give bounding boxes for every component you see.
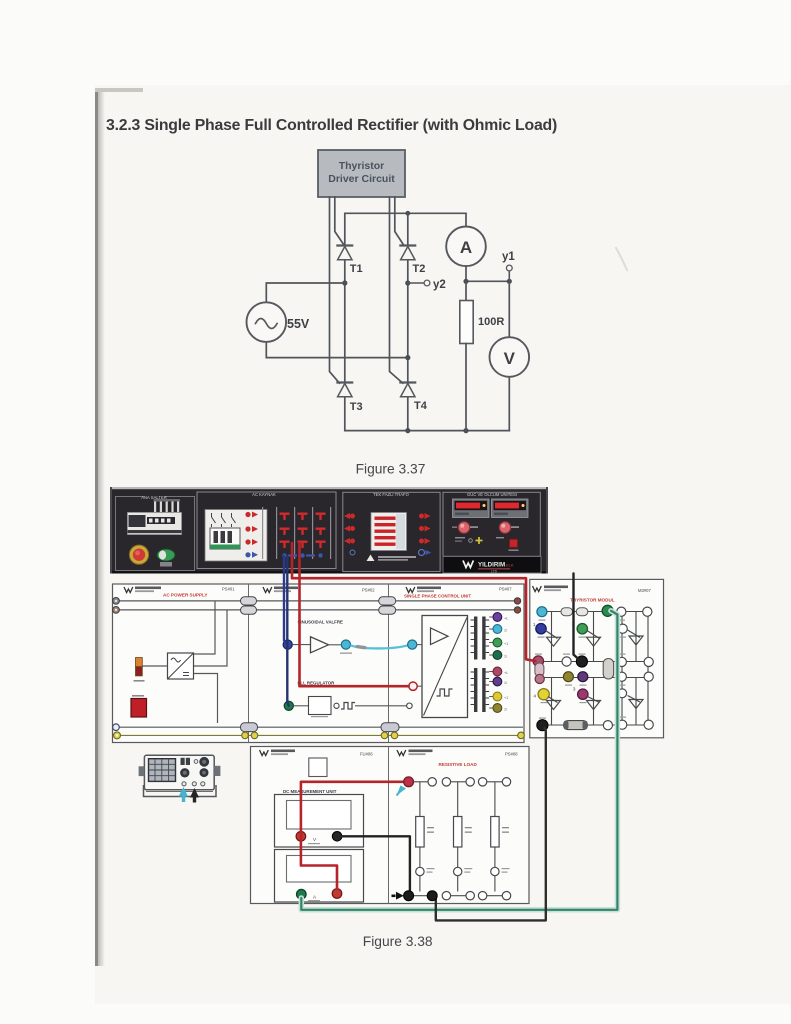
- wire pulse to control unit: [355, 705, 407, 707]
- terminal sine output cyan: [340, 640, 352, 654]
- wire rload top link 3: [487, 781, 503, 783]
- terminal control PLL input ring: [409, 682, 417, 690]
- heading text: [106, 117, 557, 134]
- wire red pll phase lead: [300, 543, 409, 686]
- wire module mid rail: [621, 612, 623, 725]
- terminal y1: [502, 251, 515, 271]
- wire row F bus: [542, 724, 648, 726]
- phase terminal grid: [262, 507, 331, 559]
- svg-text:A: A: [460, 238, 472, 257]
- node junction T2 top rail: [405, 211, 410, 216]
- control unit main block: [422, 616, 468, 718]
- wire rail L1 module3: [396, 600, 515, 602]
- wire column3 rail lower: [635, 678, 637, 726]
- variac knob 1: [452, 522, 478, 534]
- wire T4 lower rail: [407, 398, 409, 431]
- wire column1 rail lower: [551, 678, 553, 726]
- terminal D2 purple plugged: [578, 672, 588, 686]
- svg-text:T1: T1: [350, 263, 363, 275]
- terminal ammeter plus green: [297, 889, 307, 899]
- terminal rail N right: [514, 607, 520, 613]
- svg-text:y1: y1: [502, 251, 515, 263]
- resistor R2: [454, 782, 473, 892]
- wire column3 rail upper: [635, 612, 637, 662]
- power panel chassis: [110, 487, 548, 574]
- svg-text:M3#07: M3#07: [638, 588, 651, 593]
- module logo measurement unit: [260, 750, 374, 757]
- terminal rload B1: [442, 778, 450, 786]
- wire AC source top to left midpoint: [266, 283, 345, 303]
- contactor output terminals: [245, 512, 258, 558]
- terminal K1b pink: [535, 674, 544, 683]
- wire red main phase lead: [292, 543, 536, 661]
- terminal F1 black plugged: [537, 718, 548, 731]
- terminal rload bottom C1: [478, 892, 486, 900]
- terminal rload C2: [502, 778, 510, 786]
- terminal y2: [424, 279, 446, 291]
- wire T1-T3 left rail: [344, 260, 346, 382]
- wire rail N module3: [396, 609, 515, 611]
- module logo function generator: [263, 587, 375, 593]
- resistor R1: [416, 782, 435, 892]
- svg-text:+L: +L: [504, 671, 508, 675]
- terminal rload A1 red plugged: [404, 777, 414, 787]
- fuse pill A2: [576, 608, 588, 616]
- op-amp buffer: [311, 637, 329, 653]
- svg-text:T3: T3: [350, 401, 363, 413]
- thyristor S1: [546, 631, 561, 647]
- wire red measure chain: [301, 782, 405, 889]
- svg-text:DC MEASUREMENT UNIT: DC MEASUREMENT UNIT: [283, 789, 337, 794]
- connector pill bottom rail A mid2: [381, 723, 399, 732]
- svg-text:PS#07: PS#07: [499, 587, 512, 592]
- terminal yellow pair mid1: [242, 732, 258, 739]
- terminal sine input blue: [283, 640, 292, 649]
- wire column2 rail lower: [593, 678, 595, 726]
- wire blue terminal to buffer: [292, 644, 310, 646]
- svg-text:+1: +1: [504, 696, 508, 700]
- wire rload bottom link 1: [413, 895, 428, 897]
- svg-text:TEK FAZLI TRAFO: TEK FAZLI TRAFO: [373, 492, 409, 497]
- terminal bottom rail A left: [113, 724, 120, 731]
- square wave symbol: [341, 703, 355, 710]
- terminal rail L1 left: [113, 598, 120, 605]
- wire rload bottom link 3: [487, 895, 503, 897]
- pulse transformer group 1: [471, 617, 490, 660]
- wire gate drive to T2: [395, 197, 404, 245]
- wire module row A bus: [546, 611, 648, 613]
- transformer output terminals: [419, 513, 432, 556]
- voltmeter V: [490, 337, 530, 377]
- wire rail N module2: [257, 609, 379, 611]
- terminal gate K2 teal: [489, 651, 507, 660]
- terminal rload B2: [466, 778, 474, 786]
- terminal A4 open: [643, 607, 652, 616]
- terminal D1 olive plugged: [563, 672, 573, 686]
- brand logo plate: [443, 557, 541, 574]
- terminal C4 open: [617, 654, 626, 667]
- rectifier converter box: [168, 653, 194, 679]
- wire resistor bottom: [465, 344, 467, 431]
- svg-text:T4: T4: [414, 400, 428, 412]
- thyristor S3: [628, 630, 644, 645]
- warning label strip: [367, 555, 417, 562]
- wire row C bus: [538, 661, 648, 663]
- wire y2 stub: [408, 282, 424, 284]
- wire black measure lead: [342, 836, 410, 891]
- wire rectifier out to bottom rail: [194, 674, 218, 724]
- left scan shadow band: [95, 88, 143, 966]
- terminal C5 open: [644, 657, 653, 666]
- ammeter A: [446, 227, 486, 267]
- wire cyan sine signal: [350, 645, 408, 650]
- terminal yellow right: [518, 732, 525, 739]
- svg-text:SINUSOIDAL VALFRE: SINUSOIDAL VALFRE: [298, 620, 344, 625]
- terminal gate5 magenta plugged: [573, 687, 588, 704]
- indicator red block: [131, 695, 147, 717]
- wire top node T1-T2 anodes to ammeter: [345, 213, 466, 245]
- terminal PLL output green: [284, 701, 293, 710]
- input arrow marker: [392, 892, 404, 900]
- terminal rload C1: [478, 778, 486, 786]
- terminal F4 open: [644, 720, 653, 729]
- wire rload top link 1: [413, 781, 428, 783]
- label measurement unit: [283, 789, 337, 794]
- AC source 55V: [246, 302, 309, 342]
- wire bottom rail: [345, 430, 510, 432]
- emergency stop button: [129, 545, 148, 564]
- fuse pill row F: [564, 721, 588, 730]
- terminal gate3 open: [618, 624, 627, 638]
- terminal gate4 yellow plugged: [534, 689, 550, 704]
- terminal rload bottom C2: [502, 892, 510, 900]
- node junction ammeter bottom: [463, 279, 468, 284]
- svg-text:1/: 1/: [504, 708, 507, 712]
- section frame transformer: [343, 492, 440, 572]
- svg-text:+1: +1: [504, 642, 508, 646]
- node junction right bridge midpoint: [405, 280, 410, 285]
- label PLL section: [298, 681, 336, 686]
- section frame main switch: [116, 495, 195, 571]
- terminal D4 open: [644, 672, 653, 681]
- svg-text:Driver Circuit: Driver Circuit: [328, 173, 395, 185]
- wire rload top link 2: [451, 781, 466, 783]
- terminal rail N left: [113, 607, 120, 614]
- wire module right rail: [647, 612, 649, 725]
- wire green load return: [301, 611, 617, 910]
- svg-text:100R: 100R: [478, 316, 504, 328]
- module logo AC power supply: [124, 587, 235, 598]
- wire resistor branch top: [465, 281, 467, 300]
- terminal gate1 navy plugged: [533, 622, 546, 638]
- wire column1 rail upper: [551, 612, 553, 662]
- resistor 100R: [460, 301, 505, 344]
- terminal rload A2: [428, 778, 436, 786]
- svg-text:RESISTIVE LOAD: RESISTIVE LOAD: [439, 762, 478, 767]
- label sinusoidal section: [298, 620, 344, 625]
- wire green terminal to divider box: [293, 705, 308, 707]
- svg-text:ELK: ELK: [506, 563, 514, 568]
- connector pill rail L1: [241, 597, 257, 605]
- probe arrow cyan lower: [397, 786, 407, 796]
- wire rload bottom link 2: [451, 895, 466, 897]
- wire T2-T4 right rail: [407, 260, 409, 382]
- terminal K1 maroon plugged: [533, 654, 543, 667]
- caption Figure 3.38: [363, 934, 433, 949]
- svg-text:y2: y2: [433, 279, 446, 291]
- connector pill rail L1 mod2: [379, 597, 396, 605]
- wire gate drive to T1: [335, 197, 344, 245]
- terminal gate K4 olive: [489, 704, 507, 713]
- svg-text:AC POWER SUPPLY: AC POWER SUPPLY: [163, 593, 208, 598]
- terminal A3 open: [617, 607, 626, 621]
- resistor R3: [491, 782, 510, 892]
- terminal yellow left: [114, 732, 121, 739]
- terminal gate K3 purple: [489, 677, 507, 686]
- thyristor S6: [628, 696, 644, 709]
- fuse pill A1: [561, 608, 573, 616]
- svg-text:+L: +L: [504, 617, 508, 621]
- circuit breaker block: [128, 513, 182, 535]
- node junction resistor bottom: [463, 428, 468, 433]
- wire navy pll lead: [287, 556, 289, 706]
- terminal F3 open: [618, 717, 627, 730]
- variac knob 2: [499, 522, 519, 534]
- terminal C3 black plugged: [576, 654, 587, 668]
- svg-text:1/: 1/: [504, 655, 507, 659]
- pulse transformer group 2: [471, 668, 490, 712]
- terminal sync input: [407, 703, 413, 709]
- wire cyan terminal2 to block: [417, 644, 422, 646]
- connector pill center: [603, 659, 613, 680]
- wire voltmeter branch: [508, 281, 510, 430]
- wire black thyristor lead: [574, 574, 581, 661]
- terminal rload bottom B2: [466, 892, 474, 900]
- wire T2 anode rail: [407, 213, 409, 245]
- terminal rload bottom A2 black plugged: [427, 891, 437, 901]
- scan smudge near y1: [616, 248, 627, 270]
- terminal C2 open: [562, 654, 571, 667]
- connector pill rail N mod2: [379, 606, 396, 614]
- frequency divider box: [309, 697, 332, 718]
- terminal gate G3 pink: [489, 667, 508, 676]
- fuse holder box: [309, 758, 327, 777]
- upper training board: [113, 584, 525, 743]
- thyristor T3: [337, 383, 362, 414]
- fuse pill vertical K1: [535, 663, 544, 677]
- terminal gate G2 green: [489, 638, 508, 647]
- terminal rload bottom B1: [442, 892, 450, 900]
- wire navy sine lead: [284, 556, 288, 645]
- svg-text:1/: 1/: [504, 681, 507, 685]
- wire gate drive to T4: [390, 197, 403, 383]
- terminal yellow pair mid2: [381, 732, 398, 739]
- terminal ammeter minus red: [332, 889, 342, 899]
- breaker terminal pins: [154, 499, 181, 512]
- svg-text:Thyristor: Thyristor: [339, 160, 385, 172]
- panel small markings: [455, 537, 504, 544]
- svg-text:YILDIRIM: YILDIRIM: [478, 562, 505, 569]
- terminal pulse out: [334, 703, 339, 708]
- terminal D3 open: [617, 672, 626, 686]
- terminal A2 green plugged: [602, 605, 613, 616]
- terminal gate G1 purple: [489, 613, 508, 622]
- thyristor T2: [400, 246, 425, 276]
- svg-text:LTD: LTD: [491, 570, 498, 574]
- svg-text:THYRISTOR MODUL: THYRISTOR MODUL: [570, 598, 615, 603]
- svg-text:3.2.3 Single Phase Full Contro: 3.2.3 Single Phase Full Controlled Recti…: [106, 117, 557, 134]
- svg-text:V: V: [504, 349, 516, 368]
- svg-text:55V: 55V: [287, 317, 310, 331]
- module logo control unit: [404, 587, 512, 599]
- svg-text:FU#06: FU#06: [360, 752, 373, 757]
- svg-text:1/: 1/: [504, 629, 507, 633]
- oscilloscope: [139, 755, 221, 796]
- thyristor module board: [530, 579, 664, 737]
- wire rail N module1: [116, 609, 241, 611]
- scope probe cyan: [179, 787, 189, 802]
- start button green: [157, 549, 175, 567]
- section frame meters: [443, 492, 540, 556]
- terminal rail L1 right: [514, 598, 520, 604]
- digital voltmeter display: [453, 499, 490, 518]
- thyristor S5: [587, 697, 601, 710]
- wire gate drive to T3: [330, 197, 340, 383]
- wire dark common return: [436, 728, 546, 920]
- wire buffer to cyan terminal: [329, 644, 342, 646]
- isolation transformer block: [371, 513, 407, 551]
- terminal A1 cyan: [537, 607, 547, 621]
- node junction AC bottom to T2-T4 rail: [405, 355, 410, 360]
- connector pill rail N: [241, 606, 257, 614]
- thyristor S2: [587, 631, 601, 647]
- terminal gate6 open: [618, 689, 627, 698]
- transformer input terminals: [344, 513, 355, 555]
- terminal voltmeter plus red: [296, 832, 306, 842]
- wire rail drop to rectifier: [194, 601, 216, 654]
- terminal gate G4 yellow: [489, 692, 508, 701]
- svg-text:T2: T2: [413, 263, 426, 275]
- wire column2 rail upper: [593, 612, 595, 662]
- voltmeter block: [275, 795, 364, 848]
- thyristor T1: [337, 246, 362, 276]
- svg-text:GUC VE OLCUM UNITESI: GUC VE OLCUM UNITESI: [467, 492, 517, 497]
- svg-text:AC KAYNAK: AC KAYNAK: [252, 492, 276, 497]
- scope probe black: [190, 788, 199, 803]
- caption Figure 3.37: [356, 462, 426, 477]
- section frame AC source: [197, 492, 336, 569]
- wire y1 stub: [508, 271, 510, 281]
- connector pill bottom rail A mid1: [241, 723, 258, 732]
- wire ammeter to measure node: [466, 266, 509, 281]
- node junction left bridge midpoint: [342, 280, 347, 285]
- svg-text:PS#01: PS#01: [222, 587, 235, 592]
- terminal gate K1 cyan: [489, 625, 507, 634]
- node junction voltmeter top: [507, 279, 512, 284]
- wire board bottom rail A: [116, 726, 523, 728]
- wire T3 lower rail: [344, 398, 346, 431]
- module logo resistive load: [397, 750, 518, 768]
- wire row D bus: [540, 677, 648, 679]
- wire AC source bottom to right midpoint: [266, 342, 408, 358]
- terminal rload bottom A1 black plugged: [404, 891, 414, 901]
- fuse component orange: [134, 658, 168, 682]
- wire rail L1 module1: [116, 600, 241, 602]
- terminal gate2 green plugged: [572, 621, 588, 638]
- ammeter block: [275, 850, 364, 903]
- thyristor S4: [547, 697, 561, 710]
- wire rail L1 module2: [257, 600, 379, 602]
- thyristor T4: [400, 383, 427, 413]
- terminal F2 open: [603, 721, 612, 730]
- svg-text:Figure 3.37: Figure 3.37: [356, 462, 426, 477]
- svg-text:PS#08: PS#08: [505, 752, 518, 757]
- thyristor driver circuit box U1: [318, 150, 405, 197]
- node junction T4 bottom: [405, 428, 410, 433]
- contactor box: [205, 510, 267, 562]
- svg-text:PS#02: PS#02: [362, 588, 375, 593]
- wire board bottom rail B yellow: [117, 734, 523, 736]
- svg-text:PLL REGULATOR: PLL REGULATOR: [298, 681, 336, 686]
- terminal control sine input cyan: [408, 640, 417, 649]
- wire ring terminal to block: [417, 685, 422, 687]
- lower training board: [251, 747, 530, 904]
- terminal voltmeter minus black: [332, 832, 342, 842]
- digital ammeter display: [492, 499, 529, 518]
- wire rail N drop to rectifier: [194, 610, 228, 666]
- svg-text:Figure 3.38: Figure 3.38: [363, 934, 433, 949]
- red pushbutton: [509, 539, 519, 551]
- svg-text:SINGLE PHASE CONTROL UNIT: SINGLE PHASE CONTROL UNIT: [404, 594, 471, 599]
